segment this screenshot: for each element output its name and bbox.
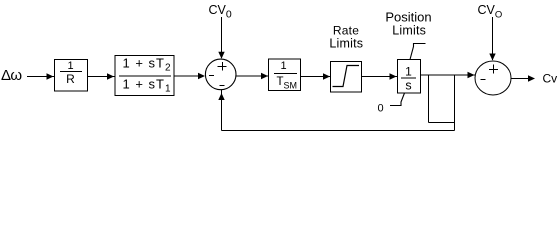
svg-text:1: 1 [405, 65, 412, 79]
summer U2 minus left [481, 79, 486, 81]
summer U2 circle [475, 61, 511, 95]
summer U2 plus sign [481, 65, 499, 80]
fraction bar leadlag [119, 75, 171, 77]
svg-text:Limits: Limits [392, 24, 426, 38]
block leadlag box [115, 56, 174, 96]
wire CVO drop right [492, 17, 494, 60]
svg-text:0: 0 [378, 103, 384, 115]
wire feedback jog horizontal [429, 122, 455, 124]
fraction bar 1/s [401, 77, 416, 79]
wire TSM to ratelimiter [301, 76, 330, 78]
block ratelimiter box [331, 62, 362, 93]
arrow into summer1 left [198, 73, 205, 79]
wire R to leadlag [88, 76, 115, 78]
block ratelimiter glyph [333, 66, 360, 87]
svg-text:1: 1 [280, 60, 286, 72]
summer U1 circle [205, 59, 236, 90]
arrow into leadlag [107, 73, 114, 79]
block TSM box [269, 59, 301, 91]
svg-text:Δω: Δω [1, 67, 22, 84]
svg-text:R: R [66, 72, 75, 86]
wire summer2 output [511, 78, 534, 80]
arrow into summer2 left [468, 72, 475, 78]
summer U1 plus sign [209, 62, 227, 86]
arrow output Cv [528, 75, 535, 81]
wire feedback tap A down [428, 75, 430, 123]
arrowheads [47, 52, 536, 100]
svg-text:Cv: Cv [543, 72, 558, 86]
fraction bar 1/TSM [274, 73, 297, 75]
summer U1 minus left [209, 75, 214, 77]
block integrator box [398, 60, 421, 94]
svg-text:Rate: Rate [333, 24, 359, 38]
arrow into ratelimiter [323, 73, 330, 79]
wire feedback tap B down [454, 75, 456, 131]
wire summer1 to TSM [236, 75, 268, 77]
wire feedback bottom horizontal [222, 130, 455, 132]
arrow feedback into summer1 bottom [218, 93, 224, 100]
arrow into TSM [261, 73, 268, 79]
integrator lower limit symbol [390, 93, 405, 106]
svg-text:Position: Position [385, 10, 431, 25]
arrow CV0 into summer1 top [218, 52, 224, 59]
wire CV0 drop [221, 17, 223, 58]
wire leadlag to summer1 [174, 75, 204, 77]
svg-text:1: 1 [67, 60, 73, 72]
wire input to R [27, 76, 54, 78]
wire integrator to summer2 [421, 74, 475, 76]
arrow into integrator [390, 73, 397, 79]
block R1 box [55, 60, 88, 92]
wire feedback up into summer1 [221, 90, 223, 131]
wire ratelimiter to integrator [362, 76, 397, 78]
fraction bar 1/R [60, 71, 82, 73]
svg-text:Limits: Limits [329, 37, 363, 51]
svg-text:s: s [405, 79, 411, 93]
arrow CVO into summer2 top [489, 54, 495, 61]
integrator upper limit symbol [390, 44, 426, 106]
summer U1 minus bottom [219, 85, 224, 87]
arrow into R [47, 73, 54, 79]
